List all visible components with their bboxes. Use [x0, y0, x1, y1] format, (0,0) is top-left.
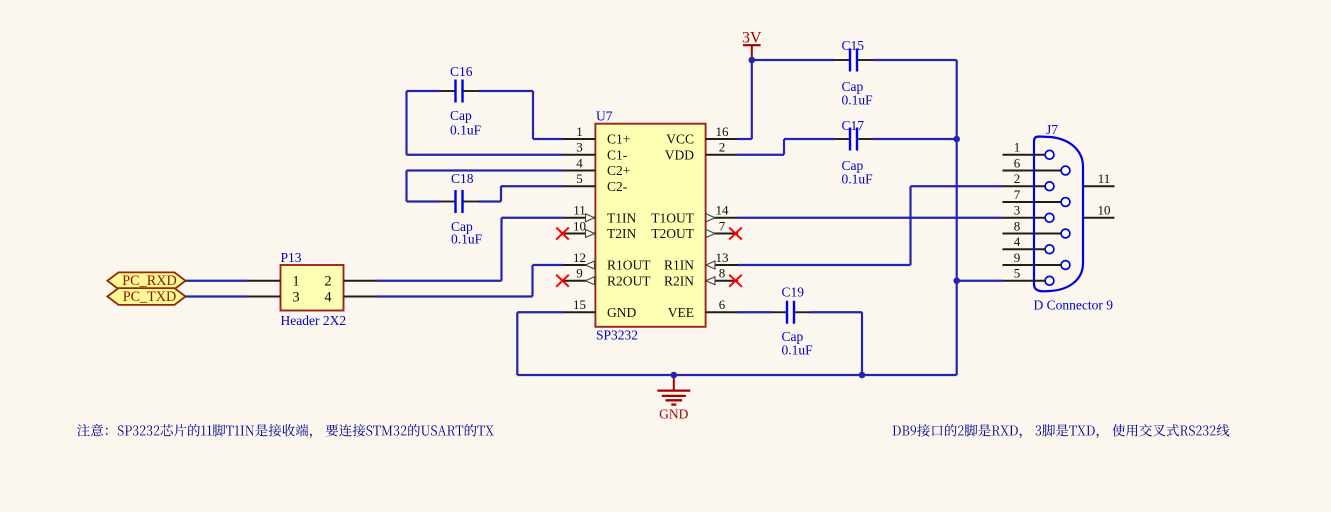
junction C17/GND-net node: [953, 136, 960, 143]
svg-text:P13: P13: [281, 250, 302, 265]
svg-text:D Connector 9: D Connector 9: [1034, 298, 1114, 313]
svg-text:R2IN: R2IN: [664, 273, 694, 288]
J7 pin 2: [1003, 171, 1054, 191]
svg-text:R1IN: R1IN: [664, 258, 694, 273]
svg-text:T2OUT: T2OUT: [651, 226, 694, 241]
J7 pin 7: [1003, 187, 1070, 207]
wire 3V down to VCC row: [751, 60, 753, 139]
U7 pin 9 (R2OUT): [563, 266, 651, 289]
wire C19 drop to ground rail: [861, 312, 863, 375]
J7 pin 6: [1003, 155, 1070, 175]
svg-text:11: 11: [573, 203, 586, 218]
svg-text:PC_TXD: PC_TXD: [123, 289, 177, 305]
wire into R1OUT pin 12: [533, 264, 564, 266]
no-connect X on U7 pin 10 T2IN: [556, 228, 569, 240]
U7 pin 16 (VCC): [666, 124, 738, 147]
no-connect X on U7 pin 7 T2OUT: [729, 228, 742, 240]
svg-text:VDD: VDD: [665, 147, 694, 162]
U7 pin 4 (C2+): [563, 155, 630, 178]
svg-text:4: 4: [576, 155, 583, 170]
wire riser to ground rail: [516, 312, 518, 375]
svg-text:C18: C18: [451, 171, 474, 186]
svg-text:GND: GND: [607, 305, 636, 320]
wire C16 right lead run: [479, 90, 534, 92]
svg-text:5: 5: [576, 171, 583, 186]
svg-text:0.1uF: 0.1uF: [450, 123, 482, 138]
svg-text:R1OUT: R1OUT: [607, 258, 651, 273]
wire into T1IN pin 11: [502, 217, 564, 219]
U7 pin 12 (R1OUT): [563, 250, 651, 273]
wire into J7 pin2: [911, 185, 1003, 187]
svg-text:15: 15: [573, 297, 586, 312]
capacitor C17 0.1uF: [834, 118, 873, 187]
svg-text:4: 4: [1014, 234, 1021, 249]
ground symbol GND: [657, 375, 690, 422]
port PC_TXD: [107, 288, 185, 305]
svg-text:5: 5: [1014, 266, 1021, 281]
wire C19 to drop: [810, 311, 862, 313]
wire P13 pin2 run right: [376, 280, 502, 282]
svg-text:C2+: C2+: [607, 163, 630, 178]
J7 pin 5: [1003, 266, 1054, 286]
svg-text:C1-: C1-: [607, 147, 628, 162]
U7 pin 13 (R1IN): [664, 250, 738, 273]
svg-text:0.1uF: 0.1uF: [842, 172, 874, 187]
wire VDD jog up: [783, 139, 785, 155]
svg-text:7: 7: [719, 218, 726, 233]
U7 pin 5 (C2-): [563, 171, 628, 194]
svg-text:3V: 3V: [742, 30, 762, 47]
svg-text:R2OUT: R2OUT: [607, 273, 651, 288]
wire riser J7 pin2 to R1IN row: [909, 186, 911, 265]
svg-text:Cap: Cap: [450, 108, 472, 123]
P13 pin 2: [324, 274, 375, 290]
svg-text:0.1uF: 0.1uF: [782, 343, 814, 358]
connector J7 D Connector 9 shell: [1034, 137, 1083, 292]
svg-text:SP3232: SP3232: [596, 328, 638, 343]
svg-text:10: 10: [573, 218, 586, 233]
wire T1OUT to J7 pin3: [738, 217, 1003, 219]
wire into C1- pin 3: [407, 154, 564, 156]
svg-text:1: 1: [292, 274, 299, 290]
svg-text:VEE: VEE: [668, 305, 694, 320]
wire GND pin15 run left: [517, 311, 563, 313]
svg-text:0.1uF: 0.1uF: [842, 93, 874, 108]
U7 pin 6 (VEE): [668, 297, 738, 320]
IC U7 SP3232 body: [595, 124, 705, 327]
svg-text:PC_RXD: PC_RXD: [122, 273, 176, 289]
J7 pin 10: [1083, 203, 1115, 218]
wire VDD to C17: [784, 138, 834, 140]
capacitor C16 0.1uF: [440, 64, 482, 138]
wire R1IN run right: [738, 264, 911, 266]
J7 pin 11: [1083, 171, 1115, 186]
svg-text:GND: GND: [659, 407, 688, 422]
svg-text:8: 8: [1014, 218, 1021, 233]
svg-text:C2-: C2-: [607, 179, 628, 194]
U7 pin 8 (R2IN): [664, 266, 738, 289]
U7 pin 3 (C1-): [563, 140, 628, 163]
svg-text:Header 2X2: Header 2X2: [281, 313, 347, 328]
U7 pin 14 (T1OUT): [651, 203, 738, 226]
svg-text:U7: U7: [596, 109, 613, 124]
J7 pin 4: [1003, 234, 1054, 254]
wire VEE pin6 run right: [738, 311, 772, 313]
wire C2+ pin4 run: [407, 169, 564, 171]
wire VDD pin2 run right: [738, 154, 785, 156]
svg-text:3: 3: [1014, 203, 1021, 218]
junction GND symbol tap: [671, 372, 678, 379]
wire into C2- pin 5: [501, 185, 563, 187]
svg-text:C19: C19: [782, 285, 805, 300]
junction 3V node: [749, 57, 756, 64]
no-connect X on U7 pin 9 R2OUT: [556, 275, 569, 287]
svg-text:1: 1: [1014, 140, 1021, 155]
wire PC_TXD to P13 pin3: [186, 295, 249, 297]
svg-text:T2IN: T2IN: [607, 226, 636, 241]
svg-text:9: 9: [1014, 250, 1021, 265]
capacitor C19 0.1uF: [771, 285, 813, 358]
P13 pin 1: [249, 274, 300, 290]
junction J7 pin5 GND tap: [953, 277, 960, 284]
svg-text:2: 2: [324, 274, 331, 290]
svg-text:2: 2: [1014, 171, 1021, 186]
wire P13 pin4 run right: [376, 295, 533, 297]
svg-text:6: 6: [1014, 155, 1021, 170]
wire PC_RXD to P13 pin1: [186, 280, 249, 282]
port PC_RXD: [107, 272, 185, 289]
wire C18 left lead run: [407, 200, 440, 202]
svg-text:8: 8: [719, 266, 726, 281]
svg-text:T1IN: T1IN: [607, 210, 636, 225]
wire riser pin1 to C16: [532, 91, 534, 139]
svg-text:C16: C16: [450, 64, 473, 79]
note text 1: [77, 424, 494, 438]
wire riser to T1IN row: [500, 218, 502, 281]
svg-text:3: 3: [292, 289, 299, 305]
svg-text:7: 7: [1014, 187, 1021, 202]
J7 pin 1: [1003, 140, 1054, 160]
svg-text:1: 1: [576, 124, 583, 139]
svg-text:0.1uF: 0.1uF: [451, 232, 483, 247]
svg-text:C17: C17: [842, 118, 865, 133]
U7 pin 7 (T2OUT): [651, 218, 738, 241]
wire GND net vertical: [956, 60, 958, 375]
wire C1+ pin1 stub join: [533, 138, 563, 140]
wire 3V rail to C15: [752, 59, 834, 61]
svg-text:10: 10: [1098, 203, 1111, 218]
wire riser C18 to C2- row: [500, 186, 502, 202]
J7 pin 9: [1003, 250, 1070, 270]
svg-text:VCC: VCC: [666, 132, 694, 147]
svg-text:2: 2: [719, 140, 726, 155]
note text 2: [893, 424, 1230, 438]
power symbol 3V: [742, 30, 762, 61]
U7 pin 11 (T1IN): [563, 203, 636, 226]
no-connect X on U7 pin 8 R2IN: [729, 275, 742, 287]
wire riser C16 to C1- row: [405, 91, 407, 155]
capacitor C15 0.1uF: [834, 38, 873, 108]
wire C18 right lead run: [479, 200, 502, 202]
svg-text:13: 13: [716, 250, 729, 265]
svg-text:4: 4: [324, 289, 332, 305]
U7 pin 15 (GND): [563, 297, 636, 320]
svg-text:C15: C15: [842, 38, 865, 53]
wire C17 to GND drop: [873, 138, 957, 140]
U7 pin 1 (C1+): [563, 124, 630, 147]
wire riser to R1OUT row: [531, 265, 533, 297]
wire riser C2+ to C18: [405, 171, 407, 202]
svg-text:J7: J7: [1046, 122, 1058, 137]
svg-text:6: 6: [719, 297, 726, 312]
wire C15 to GND drop: [873, 59, 957, 61]
U7 pin 2 (VDD): [665, 140, 738, 163]
wire ground rail: [517, 374, 956, 376]
svg-text:9: 9: [576, 266, 583, 281]
J7 pin 8: [1003, 218, 1070, 238]
connector P13 Header 2X2 body: [281, 265, 344, 311]
svg-text:14: 14: [716, 203, 730, 218]
junction C19 ground tap: [859, 372, 866, 379]
wire C16 left lead run: [407, 90, 440, 92]
P13 pin 4: [324, 289, 375, 305]
svg-text:16: 16: [716, 124, 730, 139]
svg-text:12: 12: [573, 250, 586, 265]
J7 pin 3: [1003, 203, 1054, 223]
wire into VCC pin 16: [738, 138, 752, 140]
capacitor C18 0.1uF: [440, 171, 483, 247]
P13 pin 3: [249, 289, 300, 305]
wire GND to J7 pin5: [957, 280, 1003, 282]
svg-text:3: 3: [576, 140, 583, 155]
U7 pin 10 (T2IN): [563, 218, 636, 241]
svg-text:C1+: C1+: [607, 132, 630, 147]
svg-text:11: 11: [1098, 171, 1111, 186]
svg-text:T1OUT: T1OUT: [651, 210, 694, 225]
